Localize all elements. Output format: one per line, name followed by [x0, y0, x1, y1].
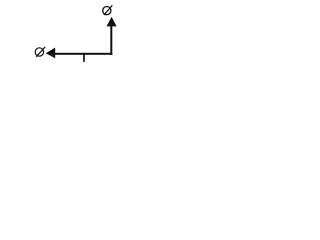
- null symbol top (circle): [103, 7, 111, 15]
- wire vertical: [110, 26, 112, 55]
- arrowhead up: [107, 17, 117, 27]
- null symbol left (slash): [36, 47, 45, 57]
- arrowhead left: [46, 48, 55, 59]
- wire horizontal: [55, 53, 112, 55]
- wire tick stub: [83, 53, 85, 62]
- null symbol left (circle): [35, 48, 43, 56]
- null symbol top (slash): [104, 5, 112, 15]
